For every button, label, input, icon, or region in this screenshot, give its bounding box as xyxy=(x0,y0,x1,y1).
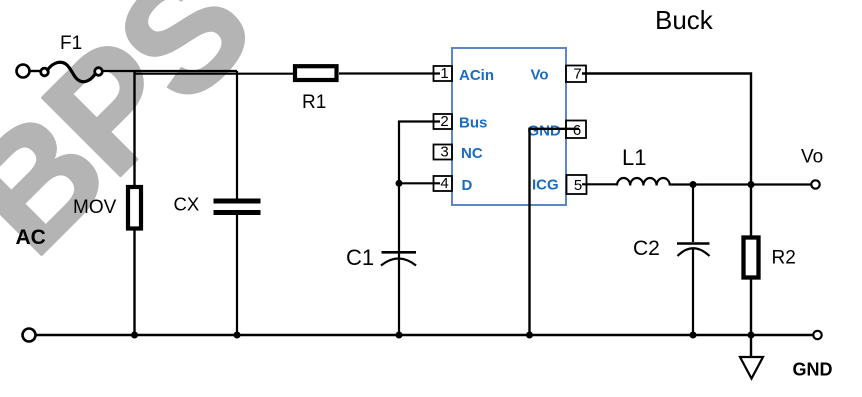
pin 1 box xyxy=(434,66,453,81)
wire C1 branch xyxy=(398,183,400,335)
node AC input top terminal xyxy=(17,65,30,78)
wire top rail upper segment xyxy=(102,70,237,72)
junction dot C2/bottom rail xyxy=(690,332,697,339)
op IC U1 body xyxy=(452,48,566,205)
capacitor C1 xyxy=(381,252,416,265)
wire top rail lower segment xyxy=(134,73,295,75)
wire pin 5 to inductor xyxy=(582,183,618,185)
wire AC terminal to fuse xyxy=(30,70,42,72)
svg-text:R1: R1 xyxy=(302,92,326,113)
svg-text:GND: GND xyxy=(793,360,833,380)
svg-text:3: 3 xyxy=(440,144,448,161)
svg-text:5: 5 xyxy=(574,177,582,194)
node AC input bottom terminal xyxy=(23,329,36,342)
node bottom right terminal xyxy=(813,331,821,339)
svg-text:ACin: ACin xyxy=(459,67,494,84)
ground xyxy=(740,357,763,379)
junction dot L1/C2 xyxy=(690,181,697,188)
wire bottom rail xyxy=(36,334,814,337)
svg-text:NC: NC xyxy=(461,145,483,162)
pin 5 box xyxy=(567,175,587,194)
pin 4 box xyxy=(434,176,453,191)
wire R2 to bottom rail xyxy=(750,279,752,335)
pin 3 box xyxy=(434,145,453,160)
svg-text:GND: GND xyxy=(528,123,562,140)
svg-text:Buck: Buck xyxy=(655,5,714,35)
wire MOV branch upper xyxy=(133,71,135,186)
svg-text:R2: R2 xyxy=(772,248,796,269)
junction dot R2/bottom rail xyxy=(748,332,755,339)
svg-text:MOV: MOV xyxy=(73,197,117,218)
pin 7 box xyxy=(566,66,586,83)
svg-text:7: 7 xyxy=(573,66,581,83)
junction dot output node xyxy=(748,181,755,188)
resistor R2 xyxy=(744,238,759,278)
wire D pin 4 xyxy=(399,182,440,184)
junction dot C1/bottom rail xyxy=(396,332,403,339)
wire C2 branch upper xyxy=(692,185,694,243)
svg-text:C1: C1 xyxy=(346,245,374,270)
wire CX branch upper xyxy=(236,71,238,199)
wire pin 7 to output node xyxy=(582,74,751,237)
junction dot at Bus/D node xyxy=(396,180,403,187)
svg-text:L1: L1 xyxy=(622,145,646,170)
capacitor C2 xyxy=(677,244,710,257)
wire to ground symbol xyxy=(750,335,752,357)
pin 2 box xyxy=(434,114,453,129)
svg-text:ICG: ICG xyxy=(532,177,559,194)
junction dot GND wire/bottom rail xyxy=(526,332,533,339)
pin 6 box xyxy=(566,121,586,139)
node Vo terminal xyxy=(811,180,819,188)
wire R1 to pin 1 xyxy=(339,72,440,74)
svg-text:Vo: Vo xyxy=(531,67,549,84)
wire CX branch lower xyxy=(236,215,238,335)
wire GND pin 6 down to bottom rail xyxy=(530,129,580,335)
svg-text:CX: CX xyxy=(174,194,200,215)
resistor R1 xyxy=(295,66,337,80)
svg-text:C2: C2 xyxy=(633,237,660,260)
inductor L1 xyxy=(617,178,670,186)
wire inductor to Vo terminal xyxy=(670,183,811,185)
svg-text:6: 6 xyxy=(573,122,581,139)
svg-text:AC: AC xyxy=(16,226,46,249)
svg-text:Bus: Bus xyxy=(459,115,487,132)
wire MOV branch lower xyxy=(133,230,135,335)
junction dot CX/bottom rail xyxy=(234,332,241,339)
junction dot MOV/bottom rail xyxy=(131,332,138,339)
capacitor CX xyxy=(214,201,261,213)
svg-text:2: 2 xyxy=(440,113,448,130)
svg-text:Vo: Vo xyxy=(801,147,823,168)
varistor MOV xyxy=(128,187,141,229)
wire C2 branch lower xyxy=(692,248,694,335)
fuse F1 xyxy=(41,62,103,81)
svg-text:1: 1 xyxy=(440,65,448,82)
wire Bus pin 2 xyxy=(399,122,440,184)
svg-text:F1: F1 xyxy=(60,33,82,54)
svg-text:D: D xyxy=(462,177,473,194)
svg-text:4: 4 xyxy=(440,175,448,192)
